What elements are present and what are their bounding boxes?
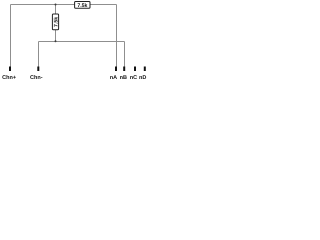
wire: right vertical to nA <box>116 5 118 67</box>
background <box>0 0 150 82</box>
wire: R2 top lead <box>55 5 57 15</box>
resistor R1 7.5k (horizontal) <box>75 2 90 10</box>
svg-text:nC: nC <box>130 75 137 81</box>
wire: left vertical to Chn+ <box>10 5 12 67</box>
terminal Chn+ <box>9 67 11 72</box>
svg-text:7.5k: 7.5k <box>77 3 87 9</box>
svg-text:7.5k: 7.5k <box>53 17 59 27</box>
node junction bottom (R2 / middle net) <box>55 40 57 42</box>
wire: vertical to nB <box>124 42 126 67</box>
svg-text:nD: nD <box>139 75 146 81</box>
wire: top horizontal net <box>11 4 117 6</box>
wire: middle horizontal net <box>39 41 125 43</box>
terminal nC <box>134 67 136 72</box>
svg-text:nB: nB <box>120 75 127 81</box>
wire: vertical to Chn- <box>38 42 40 67</box>
terminal nB <box>123 67 125 72</box>
svg-text:Chn+: Chn+ <box>2 75 16 81</box>
svg-text:Chn-: Chn- <box>30 75 43 81</box>
terminal nA <box>115 67 117 72</box>
terminal Chn- <box>37 67 39 72</box>
node junction top (R2 / top net) <box>55 4 57 6</box>
svg-text:nA: nA <box>110 75 117 81</box>
wire: R2 bottom lead <box>55 30 57 42</box>
resistor R2 7.5k (vertical) <box>52 14 59 30</box>
terminal nD <box>144 67 146 72</box>
